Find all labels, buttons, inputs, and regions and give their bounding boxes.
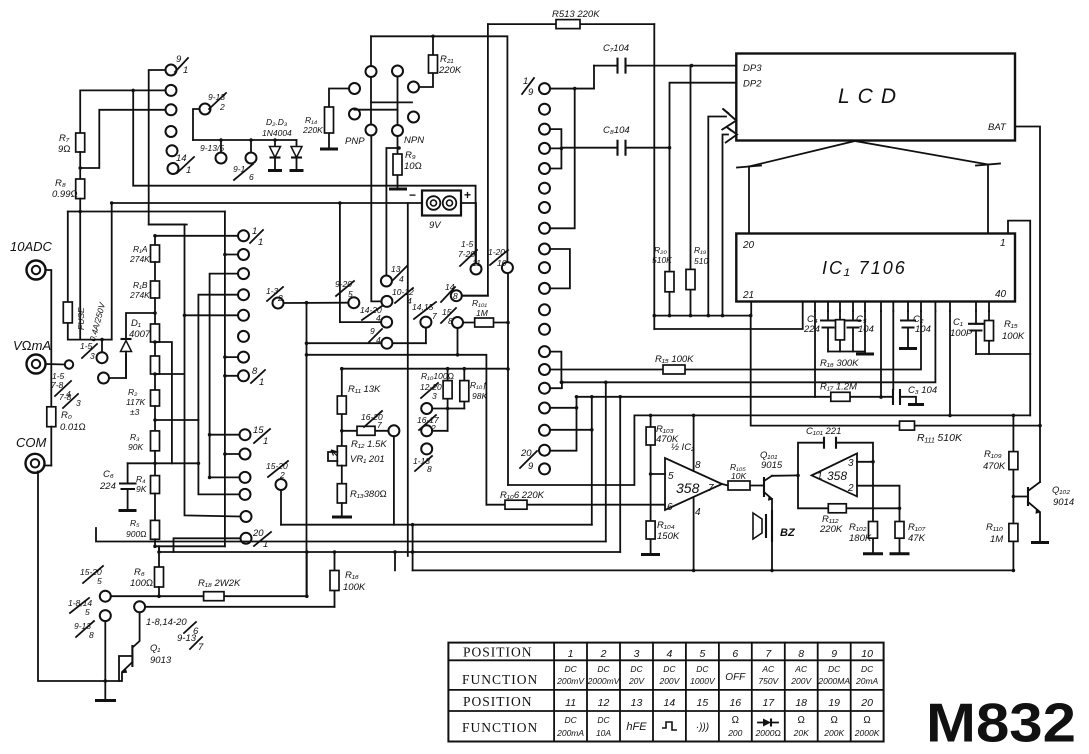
table row1 position numbers bbox=[568, 648, 873, 660]
svg-text:R513 220K: R513 220K bbox=[552, 9, 600, 20]
svg-text:R₁₀₂: R₁₀₂ bbox=[849, 522, 867, 533]
svg-text:20: 20 bbox=[860, 697, 873, 709]
svg-text:7-8: 7-8 bbox=[59, 392, 72, 402]
wire battery plus to 7-20/11 bbox=[461, 203, 476, 264]
wire wafer C row3 to R7/R8 node bbox=[80, 110, 165, 168]
resistor R0 0.01R bbox=[47, 407, 86, 466]
svg-text:1: 1 bbox=[1000, 238, 1006, 249]
node label 1/1 bbox=[250, 226, 263, 248]
svg-text:6: 6 bbox=[732, 648, 738, 660]
svg-text:hFE: hFE bbox=[626, 721, 647, 733]
wire 15/8 down to R106 feed bbox=[307, 329, 487, 505]
svg-text:90K: 90K bbox=[128, 442, 143, 452]
svg-text:R₂₁: R₂₁ bbox=[440, 54, 453, 65]
resistor chain R1A bbox=[129, 236, 160, 264]
svg-text:1: 1 bbox=[259, 377, 264, 388]
svg-text:3: 3 bbox=[848, 458, 854, 469]
resistor R14 220K bbox=[302, 89, 349, 150]
svg-text:R₁₈ 2W2K: R₁₈ 2W2K bbox=[198, 578, 241, 589]
svg-text:900Ω: 900Ω bbox=[126, 529, 147, 539]
wire battery minus bus bbox=[112, 202, 422, 204]
ground bottom left bbox=[95, 699, 116, 702]
svg-text:10: 10 bbox=[497, 258, 507, 268]
bottom long bus wire bbox=[413, 569, 1014, 571]
svg-text:1: 1 bbox=[263, 436, 268, 447]
capacitor C3 104 bbox=[893, 385, 937, 405]
svg-text:3: 3 bbox=[90, 351, 95, 361]
resistor R106 220K on pin6 wire bbox=[486, 490, 665, 509]
svg-text:12: 12 bbox=[598, 697, 610, 709]
wire 9/1 contact routing down bbox=[149, 70, 185, 225]
svg-text:2: 2 bbox=[277, 293, 283, 303]
svg-text:R₅: R₅ bbox=[130, 518, 140, 528]
wire R513 right vertical down to common rail bbox=[653, 24, 655, 329]
svg-text:2000mV: 2000mV bbox=[587, 676, 621, 686]
svg-text:9K: 9K bbox=[136, 484, 147, 494]
resistor R6 100R bbox=[130, 546, 164, 596]
svg-text:C₁: C₁ bbox=[953, 317, 963, 328]
wire second top rail bbox=[371, 36, 507, 262]
table square wave symbol (pos 14) bbox=[662, 722, 677, 730]
svg-text:COM: COM bbox=[16, 435, 47, 450]
svg-text:NPN: NPN bbox=[404, 135, 424, 146]
wire common rail under IC (pin21) bbox=[654, 302, 751, 316]
svg-text:2000MA: 2000MA bbox=[817, 676, 850, 686]
svg-text:16: 16 bbox=[729, 697, 741, 709]
junction dots op-amp area bbox=[649, 314, 1042, 572]
svg-text:R₁₀₇: R₁₀₇ bbox=[908, 522, 926, 533]
resistor R105 10K output bbox=[722, 462, 762, 490]
rotary switch wafer A contacts (1/1..8/1) bbox=[238, 230, 249, 381]
svg-text:13: 13 bbox=[631, 697, 643, 709]
svg-text:9: 9 bbox=[528, 461, 534, 472]
svg-text:R₁₅ 100K: R₁₅ 100K bbox=[655, 354, 694, 365]
wire op-amp pin4 down to bottom bus bbox=[693, 497, 695, 570]
svg-text:2000K: 2000K bbox=[854, 728, 880, 738]
node label 8/1 bbox=[251, 366, 265, 388]
resistor R7 9R bbox=[58, 133, 85, 179]
svg-text:9-13: 9-13 bbox=[177, 633, 197, 644]
svg-text:R₇: R₇ bbox=[59, 133, 70, 144]
svg-text:358: 358 bbox=[676, 480, 700, 496]
svg-text:R₁₆ 300K: R₁₆ 300K bbox=[820, 358, 859, 369]
capacitor C5 104 bbox=[845, 311, 874, 352]
svg-text:2: 2 bbox=[847, 483, 854, 494]
node circle 1-20/10 bbox=[488, 247, 513, 273]
svg-text:R₃: R₃ bbox=[130, 432, 140, 442]
wire pin (x893) down to C3 plate bbox=[892, 311, 894, 389]
svg-text:220K: 220K bbox=[819, 524, 843, 535]
wire 1-8 circle to R16 bottom bbox=[145, 606, 334, 608]
svg-text:OFF: OFF bbox=[725, 672, 746, 683]
resistor R16 300K vertical bbox=[820, 311, 859, 369]
svg-text:5: 5 bbox=[348, 289, 353, 299]
fuse 0.4A/250V bbox=[63, 212, 111, 353]
transistor socket PNP/NPN bbox=[345, 66, 424, 148]
table diode symbol (pos 17) bbox=[758, 719, 778, 727]
wire DP2 from LCD down to C8 node bbox=[670, 83, 737, 148]
svg-text:R₁₆: R₁₆ bbox=[345, 570, 359, 581]
svg-text:DC: DC bbox=[564, 715, 577, 725]
transistor Q102 9014 bbox=[1013, 482, 1074, 543]
rail A to pin (x921) with resistor R115 100K bbox=[550, 311, 921, 374]
resistor R10B 98K bbox=[460, 369, 488, 409]
svg-text:Q₁: Q₁ bbox=[150, 643, 160, 654]
svg-text:R₁₀₁: R₁₀₁ bbox=[472, 298, 487, 308]
svg-text:21: 21 bbox=[742, 290, 754, 301]
svg-text:8: 8 bbox=[427, 464, 432, 474]
diodes D2 D3 1N4004 bbox=[193, 117, 304, 171]
node circle 12-20/3 bbox=[420, 382, 464, 414]
wire BAT to right edge vertical bbox=[1015, 127, 1040, 483]
wire 7-8/3 to D1 bbox=[109, 355, 126, 379]
resistor R111 510K rail bbox=[751, 316, 1040, 444]
svg-text:PNP: PNP bbox=[345, 136, 365, 147]
svg-text:220K: 220K bbox=[438, 65, 462, 76]
svg-text:470K: 470K bbox=[983, 461, 1006, 472]
buzzer BZ bbox=[753, 510, 796, 570]
wire fuse top bus bbox=[68, 211, 225, 213]
capacitor C4 224 bbox=[803, 311, 836, 352]
svg-text:4: 4 bbox=[695, 507, 701, 518]
node circle 1-3/2 bbox=[266, 286, 284, 309]
svg-text:4: 4 bbox=[666, 648, 672, 660]
resistor R102 220K feedback bbox=[798, 475, 900, 535]
wire 1-3/2 to 9-20/5 bbox=[284, 302, 349, 304]
svg-text:2: 2 bbox=[600, 648, 607, 660]
svg-text:8: 8 bbox=[453, 291, 458, 301]
junction dots middle bbox=[456, 321, 510, 357]
svg-text:5: 5 bbox=[668, 471, 674, 482]
junction dots diode row bbox=[219, 35, 435, 150]
svg-text:DC: DC bbox=[696, 664, 709, 674]
svg-text:C₈104: C₈104 bbox=[603, 125, 630, 136]
node circle 9-1/6 bbox=[233, 140, 257, 182]
svg-text:20V: 20V bbox=[628, 676, 645, 686]
svg-text:510: 510 bbox=[694, 256, 708, 266]
rail B to pin (x935) bbox=[561, 311, 935, 382]
wire pin (x950) down to supply rail bbox=[949, 311, 951, 415]
resistor R1B bbox=[129, 262, 160, 300]
svg-text:R₁A: R₁A bbox=[133, 244, 148, 254]
svg-text:−: − bbox=[409, 188, 416, 202]
svg-text:FUNCTION: FUNCTION bbox=[462, 672, 538, 687]
node circle 15/8 with R101 bbox=[441, 307, 463, 328]
svg-text:7-8: 7-8 bbox=[51, 380, 64, 390]
wire 10ADC to R0 bbox=[46, 270, 52, 407]
node circle 9-13/5 bbox=[200, 140, 227, 164]
svg-text:C₁₀₁ 221: C₁₀₁ 221 bbox=[806, 426, 841, 437]
wire bottom bus y552 bbox=[159, 546, 620, 552]
diode D1 4007 bbox=[121, 313, 156, 378]
svg-text:1M: 1M bbox=[990, 534, 1003, 545]
svg-text:224: 224 bbox=[803, 324, 820, 335]
svg-text:200: 200 bbox=[727, 728, 742, 738]
svg-text:7: 7 bbox=[708, 483, 714, 494]
node circle 9/4 bbox=[307, 326, 426, 349]
svg-text:3: 3 bbox=[432, 391, 437, 401]
capacitor C101 221 feedback bbox=[798, 426, 873, 475]
LCD-IC1 bus fan bbox=[737, 141, 1000, 234]
svg-text:11: 11 bbox=[565, 697, 576, 709]
svg-text:3: 3 bbox=[634, 648, 640, 660]
svg-text:C₇104: C₇104 bbox=[603, 43, 629, 54]
junction dots buses bbox=[560, 381, 622, 432]
svg-text:R₉: R₉ bbox=[405, 150, 416, 161]
svg-text:1: 1 bbox=[568, 648, 574, 660]
svg-text:200V: 200V bbox=[790, 676, 812, 686]
wire nest vx198.4 bbox=[198, 295, 238, 464]
svg-text:R₁₁₁ 510K: R₁₁₁ 510K bbox=[917, 432, 963, 444]
wire pin2 to R107 bbox=[857, 486, 900, 522]
node circle 14/8 bbox=[441, 282, 488, 302]
svg-text:1-5: 1-5 bbox=[461, 239, 474, 249]
svg-text:AC: AC bbox=[794, 664, 808, 674]
node circle junction 1-5 7-8/4 bbox=[46, 360, 74, 399]
svg-text:9Ω: 9Ω bbox=[58, 144, 71, 155]
junction dots under IC bbox=[506, 367, 883, 399]
svg-text:VR₁ 201: VR₁ 201 bbox=[350, 454, 385, 465]
resistor R9 10R bbox=[389, 136, 422, 189]
wire nest lower stubs bbox=[155, 420, 240, 494]
svg-text:7: 7 bbox=[432, 311, 437, 321]
node circle 7-8/3 bbox=[59, 373, 109, 409]
table row3 position numbers bbox=[565, 697, 873, 709]
wire mid-bottom bus y541 bbox=[96, 528, 606, 542]
svg-text:200mV: 200mV bbox=[556, 676, 585, 686]
node circle 1-8,14/5 bbox=[68, 598, 111, 621]
svg-text:R₁₀100Ω: R₁₀100Ω bbox=[421, 371, 455, 381]
svg-text:4: 4 bbox=[399, 274, 404, 284]
svg-text:1-8,14-20: 1-8,14-20 bbox=[146, 617, 187, 628]
svg-text:9: 9 bbox=[831, 648, 837, 660]
rail left segment to R11 bbox=[342, 368, 508, 370]
svg-text:100P: 100P bbox=[950, 328, 973, 339]
wire COM to R0 bbox=[45, 465, 52, 467]
svg-text:224: 224 bbox=[99, 481, 116, 492]
resistor R21 220K bbox=[419, 36, 462, 87]
resistor R5 900R bbox=[126, 518, 160, 546]
wire nest vx172 bbox=[155, 342, 172, 463]
svg-text:R₁₀₉: R₁₀₉ bbox=[984, 449, 1002, 460]
svg-text:R₁₂ 1.5K: R₁₂ 1.5K bbox=[351, 439, 387, 450]
svg-text:220K: 220K bbox=[302, 125, 323, 135]
op-amp U2b (358 mirrored) bbox=[812, 453, 857, 496]
svg-text:9: 9 bbox=[370, 326, 375, 336]
IC1 pin stubs bottom bbox=[815, 302, 989, 312]
svg-text:R₁₁ 13K: R₁₁ 13K bbox=[348, 384, 381, 395]
svg-text:470K: 470K bbox=[656, 434, 679, 445]
svg-text:104: 104 bbox=[858, 324, 874, 335]
svg-text:98K: 98K bbox=[472, 391, 487, 401]
svg-text:M832: M832 bbox=[926, 692, 1076, 754]
wire C1/R15 bottom rail to right vertical bbox=[976, 353, 1030, 355]
svg-text:2: 2 bbox=[219, 102, 225, 112]
resistor R13 380R bbox=[332, 484, 387, 517]
svg-text:14: 14 bbox=[176, 153, 187, 164]
node circle 14,15/7 bbox=[412, 302, 437, 343]
wire nest vx209.6 bbox=[210, 274, 240, 478]
svg-text:FUNCTION: FUNCTION bbox=[462, 720, 538, 735]
svg-text:19: 19 bbox=[828, 697, 840, 709]
svg-text:100Ω: 100Ω bbox=[130, 578, 153, 589]
svg-text:117K: 117K bbox=[126, 397, 146, 407]
svg-text:8: 8 bbox=[89, 630, 94, 640]
svg-text:20mA: 20mA bbox=[855, 676, 879, 686]
node circle 16-17/2 bbox=[417, 415, 448, 436]
wire center vertical x306 bbox=[306, 303, 308, 597]
capacitor C6 224 bbox=[99, 463, 198, 510]
wire 1/1 to chain top bbox=[155, 235, 238, 237]
svg-text:DC: DC bbox=[564, 664, 577, 674]
node circle 10-12/4 bbox=[371, 136, 414, 307]
IC1 7106 block bbox=[736, 234, 1015, 302]
resistor R108 180K bbox=[849, 462, 883, 554]
terminal COM bbox=[16, 435, 47, 473]
svg-text:7: 7 bbox=[377, 420, 382, 430]
svg-text:C₆: C₆ bbox=[103, 469, 114, 480]
svg-text:180K: 180K bbox=[849, 533, 872, 544]
wire Q101 collector to 2nd op-amp output node bbox=[772, 474, 798, 476]
svg-text:274K: 274K bbox=[129, 254, 150, 264]
svg-text:DC: DC bbox=[663, 664, 676, 674]
svg-text:·))): ·))) bbox=[696, 722, 709, 733]
svg-text:R₂₀: R₂₀ bbox=[654, 245, 667, 255]
svg-text:LCD: LCD bbox=[838, 85, 904, 108]
resistor R110 1M bbox=[986, 522, 1018, 570]
resistor R16 100K vertical right bbox=[330, 552, 366, 607]
svg-text:5: 5 bbox=[97, 576, 102, 586]
svg-text:2: 2 bbox=[279, 470, 285, 480]
wire top-left vertical from R513 bbox=[462, 24, 488, 296]
svg-text:R₁₅: R₁₅ bbox=[1004, 319, 1018, 330]
wire chain R5-R6 link bbox=[155, 545, 225, 547]
wire mid-bottom bus y524 bbox=[281, 524, 592, 526]
node circle 1-5/3 bbox=[80, 341, 108, 363]
svg-text:20: 20 bbox=[252, 528, 264, 539]
wire nest vx224.9 bbox=[225, 212, 240, 547]
svg-text:DP3: DP3 bbox=[743, 63, 762, 74]
rotary switch wafer B contacts (1/9..20/9) bbox=[539, 83, 550, 474]
svg-text:1: 1 bbox=[258, 237, 263, 248]
svg-text:R₁₁₀: R₁₁₀ bbox=[986, 522, 1003, 533]
rail E op-amp supply from pin 1 bbox=[508, 415, 1030, 485]
svg-text:R₄: R₄ bbox=[136, 474, 146, 484]
wire bus y224 bbox=[149, 224, 187, 226]
svg-text:VΩmA: VΩmA bbox=[13, 338, 51, 353]
svg-text:17: 17 bbox=[762, 697, 775, 709]
wire op-amp pin8 supply bbox=[693, 415, 695, 471]
wire 20/1 stub bbox=[174, 538, 241, 552]
node circle 9-20/5 bbox=[335, 279, 359, 308]
svg-text:Ω: Ω bbox=[731, 715, 739, 726]
wire 15-20/2 circle drop bbox=[266, 461, 288, 525]
svg-text:1: 1 bbox=[183, 65, 188, 76]
svg-text:750V: 750V bbox=[758, 676, 779, 686]
rotary switch wafer C contacts top-left (9/1..14/1) bbox=[166, 65, 179, 175]
wire vertical link x412 bbox=[395, 525, 413, 571]
node circle 9-13/2 bbox=[193, 92, 226, 140]
wire wafer C row2 to R7 bbox=[80, 90, 165, 133]
junction dots top right bbox=[653, 64, 725, 318]
wire staircase links bbox=[592, 382, 620, 552]
svg-text:200mA: 200mA bbox=[556, 728, 584, 738]
svg-text:DC: DC bbox=[597, 664, 610, 674]
wire C4-R16-C5 bottom rail bbox=[828, 351, 865, 353]
wire Q101 emitter to buzzer bbox=[771, 499, 773, 514]
svg-text:R₁B: R₁B bbox=[133, 280, 148, 290]
svg-text:8: 8 bbox=[252, 366, 258, 377]
capacitor C1 100P bbox=[950, 311, 984, 354]
svg-text:Ω: Ω bbox=[797, 715, 805, 726]
resistor R8 0.99R bbox=[52, 178, 85, 340]
potentiometer VR1 201 bbox=[328, 446, 385, 484]
resistor R10 100R bbox=[421, 369, 455, 431]
table row2 function cells bbox=[556, 664, 878, 686]
svg-text:D₂.D₃: D₂.D₃ bbox=[266, 117, 288, 127]
wire switch vertical x508 down to R106 area bbox=[507, 274, 509, 486]
svg-text:R₀: R₀ bbox=[61, 410, 72, 421]
wire pin to R17 rail junction (x881) bbox=[880, 311, 882, 397]
ground under pin (x865) bbox=[856, 311, 874, 354]
svg-text:100K: 100K bbox=[343, 582, 366, 593]
svg-text:10: 10 bbox=[861, 648, 873, 660]
svg-text:10ADC: 10ADC bbox=[10, 239, 53, 254]
resistor R4 9K bbox=[136, 474, 160, 520]
svg-text:10K: 10K bbox=[731, 471, 746, 481]
svg-text:1M: 1M bbox=[476, 308, 489, 318]
wire vertical x133 to long bus bbox=[133, 90, 475, 263]
rotary switch wafer A contacts (15/1..20/1) bbox=[240, 429, 252, 544]
junction dots cluster bbox=[305, 201, 466, 432]
svg-text:4007: 4007 bbox=[129, 329, 151, 340]
svg-text:R₁₀6 220K: R₁₀6 220K bbox=[500, 490, 545, 501]
resistor chain segment 1 bbox=[151, 298, 160, 390]
resistor R2 117K bbox=[126, 387, 160, 431]
svg-text:9: 9 bbox=[528, 87, 534, 98]
svg-text:BZ: BZ bbox=[780, 527, 796, 539]
svg-text:4: 4 bbox=[407, 296, 412, 306]
wire vertical from battery minus down bbox=[407, 203, 409, 556]
wire rail to second pin bbox=[654, 302, 802, 330]
wire pin1 U-turn to right side bbox=[1008, 221, 1030, 416]
svg-text:7: 7 bbox=[198, 642, 204, 653]
svg-text:10Ω: 10Ω bbox=[404, 161, 422, 172]
svg-text:POSITION: POSITION bbox=[463, 694, 533, 709]
terminal VOhmmA bbox=[13, 338, 51, 374]
junction dots left nest bbox=[78, 89, 226, 554]
battery 9V bbox=[409, 188, 471, 231]
svg-text:510K: 510K bbox=[652, 255, 672, 265]
wire op-amp pin5 input bbox=[651, 473, 665, 475]
transistor Q101 9015 bbox=[760, 450, 783, 501]
backplane arrow upper into LCD bbox=[708, 109, 736, 316]
resistor R17 1.2M with C3 bbox=[577, 311, 894, 401]
svg-text:100K: 100K bbox=[1002, 331, 1025, 342]
svg-text:D₁: D₁ bbox=[131, 318, 141, 329]
table row4 function cells bbox=[556, 715, 880, 738]
svg-text:8: 8 bbox=[798, 648, 804, 660]
node label 20/9 bbox=[520, 448, 537, 472]
resistor R12 1.5K with 16-20/7 circle bbox=[342, 411, 400, 525]
svg-text:9014: 9014 bbox=[1053, 497, 1074, 508]
svg-text:18: 18 bbox=[795, 697, 807, 709]
wire R9 top tap to 13/4 circle bbox=[386, 148, 397, 276]
node label 20/1 bbox=[252, 528, 271, 550]
resistor R18 2W2K bbox=[111, 552, 307, 601]
wire 1-8,14/5 down to ground bbox=[104, 621, 106, 699]
svg-text:9013: 9013 bbox=[150, 655, 172, 666]
